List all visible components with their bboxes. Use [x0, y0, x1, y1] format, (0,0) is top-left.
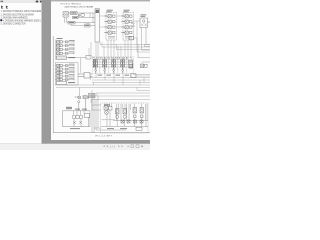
svg-text:P1 A1 B1 A2 B2 A3 B3 A4 B4 A5: P1 A1 B1 A2 B2 A3 B3 A4 B4 A5 T1 [93, 56, 133, 59]
travel motor TM2 [123, 115, 126, 118]
bus wire 5 [56, 87, 150, 89]
pilot valve 2-5 [55, 78, 74, 81]
bookmark row 4 selected icon [0, 19, 2, 21]
zoom fit icon [136, 145, 139, 148]
title line 1 [61, 4, 82, 6]
solenoid A4 [106, 31, 115, 34]
solenoid A3 [106, 26, 115, 29]
travel motor TM1 [116, 115, 119, 118]
right solenoid pair 1 [130, 65, 133, 69]
zoom minus [127, 145, 129, 148]
left feed wires to lower assembly [92, 90, 126, 133]
zoom page icon [131, 145, 133, 148]
main valve section 1 [94, 60, 98, 74]
valve block B frame [123, 13, 134, 41]
pilot valve 2-1 [55, 64, 74, 67]
svg-text:W 1-2-1 SET: W 1-2-1 SET [95, 135, 113, 137]
solenoid B3 [123, 26, 132, 29]
bus wire 3 [92, 82, 150, 84]
bus wire 6 [96, 92, 150, 94]
drawing frame left border [52, 36, 54, 133]
assembly drops [107, 110, 146, 127]
swing valve SV2 [109, 107, 113, 111]
discharge branch ticks [90, 13, 93, 23]
pump caption [70, 128, 80, 129]
nav arrow right [118, 145, 119, 147]
bus wire 7 [89, 95, 151, 97]
solenoid A1 [106, 15, 115, 18]
relief valve box [71, 23, 95, 27]
lower-left tank lines [63, 111, 91, 127]
travel feed verticals [117, 104, 131, 121]
valve A bottom ports [108, 37, 115, 39]
pilot bank 2 end box [57, 81, 75, 84]
pump label row [75, 109, 87, 110]
svg-text:ZAXIS HYDRAULIC CIRCUIT DIAGRA: ZAXIS HYDRAULIC CIRCUIT DIAGRAM [65, 6, 94, 9]
sidebar header button 2 [40, 1, 42, 3]
pilot valve 2-3 [55, 71, 74, 74]
pump X symbol 2 [79, 121, 82, 124]
filter F2 [78, 99, 86, 111]
drawing frame bottom border [53, 132, 150, 134]
bus wire 1 [90, 77, 150, 79]
svg-text:5. ZAXIS50U CONNECTOR: 5. ZAXIS50U CONNECTOR [1, 22, 26, 25]
svg-text:1 / 1: 1 / 1 [110, 144, 116, 148]
swing motor SM [105, 111, 109, 115]
solenoid B4 [123, 31, 132, 34]
solenoid B2 [123, 20, 132, 23]
wire W1 with inline box [73, 16, 96, 19]
bank 1 outlet wire [66, 58, 86, 73]
tank column T [95, 9, 100, 43]
vertical wires to main valve [96, 40, 131, 57]
main valve left feeds [89, 42, 91, 57]
valve block A frame [106, 13, 117, 41]
pilot valve 1-2 [56, 44, 75, 47]
travel spool TS2 [123, 109, 127, 115]
suction strainer label [66, 107, 72, 109]
sidebar header button 1 [36, 1, 38, 3]
right corner wire 3 [145, 44, 151, 47]
valve C drop wires [142, 28, 147, 45]
pump regulator box [69, 12, 78, 15]
filter side marks [75, 96, 78, 97]
right valve RV2 [140, 108, 144, 118]
zoom plus [141, 145, 143, 147]
pilot bank 2 frame [55, 63, 78, 85]
bookmark row 2 [1, 13, 34, 16]
expand icon 1 [1, 5, 3, 8]
lower assembly frame [101, 103, 149, 133]
pilot bank 1 end box [57, 56, 75, 59]
viewer gray background [42, 0, 151, 144]
pilot valve 1-1 [56, 40, 75, 43]
pump circle 3 [79, 115, 83, 119]
right corner wire 5 [142, 61, 151, 63]
filter feed wire [79, 88, 92, 111]
sidebar header strip [0, 0, 42, 3]
pilot bank 1 rail [55, 40, 57, 60]
assembly rail 1 [113, 120, 148, 122]
main valve section caps [95, 58, 124, 68]
right feed verticals [135, 104, 148, 121]
bookmark row 3 [1, 16, 28, 19]
title line 2 [65, 6, 94, 9]
right valve RV1 [133, 108, 137, 118]
status bar [0, 144, 150, 151]
pump suction box [89, 93, 96, 97]
pump X symbol 1 [73, 121, 76, 124]
valve block B label [124, 10, 130, 13]
swing label [104, 104, 110, 105]
right solenoid pair 2 [141, 64, 148, 68]
main valve section 3 [112, 60, 116, 74]
bookmark row 4 [3, 19, 41, 22]
nav arrow left2 [107, 145, 108, 147]
bookmark row 1 [1, 10, 42, 13]
white schematic page [51, 1, 150, 140]
main control valve frame [93, 57, 134, 74]
main valve internal rails [93, 60, 134, 67]
expand icon 2 [6, 5, 8, 8]
main valve bottom labels [98, 75, 130, 76]
pilot valve 1-3 [56, 48, 75, 51]
caption under frame [95, 135, 113, 137]
nav arrow right2 [122, 145, 123, 147]
right corner wire 4 [146, 43, 150, 46]
filter F1 [78, 96, 81, 99]
small box near pump [81, 14, 84, 16]
junction box J0 [86, 55, 91, 59]
swing valve SV1 [104, 106, 108, 110]
bus wire 8 [91, 99, 150, 101]
main valve right port box [129, 61, 133, 68]
valve block C frame [140, 18, 148, 28]
pump drain wires [65, 17, 67, 23]
right component R1 [129, 36, 134, 40]
solenoid C1 [141, 20, 150, 26]
assembly rail 2 [101, 126, 148, 128]
pump circle 1 [72, 115, 76, 119]
wires between blocks [100, 16, 141, 44]
main valve section 4 [121, 60, 125, 74]
travel spool TS1 [116, 109, 120, 115]
right corner wire 2 [142, 44, 151, 50]
valve block C label [141, 14, 147, 16]
main valve left end cap [93, 60, 94, 68]
nav arrow left [103, 145, 104, 147]
pump P1 [63, 11, 69, 17]
main valve top labels [93, 56, 133, 59]
junction box J1 [78, 73, 93, 79]
status bar top border [0, 143, 150, 146]
pump outlet wires [74, 111, 90, 127]
bus right convergence [133, 75, 150, 77]
sidebar header tab text [1, 1, 4, 2]
sidebar panel background [0, 0, 42, 144]
swing feed stubs [102, 104, 116, 120]
main valve section 2 [103, 60, 107, 74]
assembly bottom box [136, 127, 142, 130]
pilot valve 2-2 [55, 67, 74, 70]
bus risers [89, 71, 131, 103]
pilot valve 1-4 [56, 51, 75, 54]
cooler box [83, 96, 87, 99]
check valve symbol [78, 14, 80, 16]
svg-text:FIG.1 W-1-1 THRU W-3-1: FIG.1 W-1-1 THRU W-3-1 [61, 4, 82, 6]
wire W2 with inline box [67, 21, 95, 24]
routing channel wires [100, 38, 150, 52]
valve B bottom ports [125, 37, 132, 39]
valve block A label [107, 10, 113, 13]
right corner wire 1 [138, 44, 150, 58]
bus jogs [91, 78, 151, 97]
pilot bank 1 label [57, 38, 63, 39]
pilot valve 2-4 [55, 74, 74, 77]
bus wire 4 [67, 84, 150, 86]
bookmark row 5 [1, 22, 26, 25]
solenoid A2 [106, 20, 115, 23]
pump discharge wire [77, 12, 95, 14]
pump feed drops [74, 111, 85, 115]
pump circle 2 [76, 115, 80, 119]
assembly labels [107, 128, 127, 129]
valve row labels [104, 16, 124, 33]
valve C side labels [131, 23, 135, 27]
main valve section separators [100, 57, 127, 73]
solenoid B1 [123, 15, 132, 18]
bus label box [131, 74, 136, 78]
lower valve row [121, 120, 143, 123]
pump side box [85, 114, 90, 118]
bus wire 2 [92, 79, 150, 81]
